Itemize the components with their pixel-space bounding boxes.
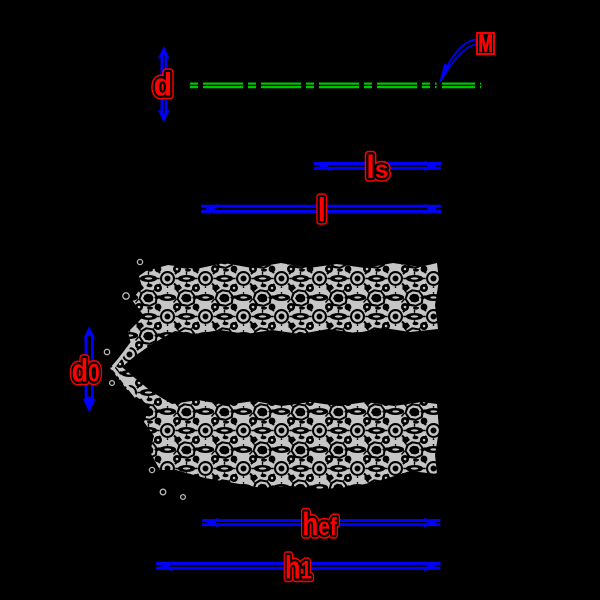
wall cross-section (aerated concrete with drilled hole) bbox=[110, 263, 439, 489]
torn-edge debris specks bbox=[104, 259, 185, 499]
svg-text:l: l bbox=[318, 191, 326, 228]
label ls bbox=[366, 148, 388, 185]
svg-text:hef: hef bbox=[302, 507, 337, 543]
svg-text:M: M bbox=[478, 29, 493, 58]
svg-text:d: d bbox=[154, 67, 173, 103]
svg-text:h1: h1 bbox=[285, 551, 312, 586]
label l bbox=[318, 191, 326, 228]
dimension line h1 (hole depth) bbox=[156, 563, 441, 568]
dimension line ls (thread length) bbox=[314, 164, 441, 169]
label d bbox=[154, 67, 173, 103]
leader arrow from M to screw tip bbox=[441, 39, 477, 81]
dimension d0 (hole diameter), vertical arrows bbox=[86, 336, 92, 402]
dimension d (screw diameter), vertical double-headed arrow bbox=[162, 56, 166, 112]
green screw centerline bbox=[190, 84, 481, 88]
label hef bbox=[302, 507, 337, 543]
drill tip hatch edge bbox=[113, 340, 136, 397]
dimension line l (screw length) bbox=[201, 206, 441, 211]
svg-text:d0: d0 bbox=[72, 353, 100, 389]
label h1 bbox=[285, 551, 312, 586]
label d0 bbox=[72, 353, 100, 389]
label M (torque) in red box bbox=[477, 29, 494, 58]
dimension line hef (effective anchorage depth) bbox=[202, 521, 441, 525]
